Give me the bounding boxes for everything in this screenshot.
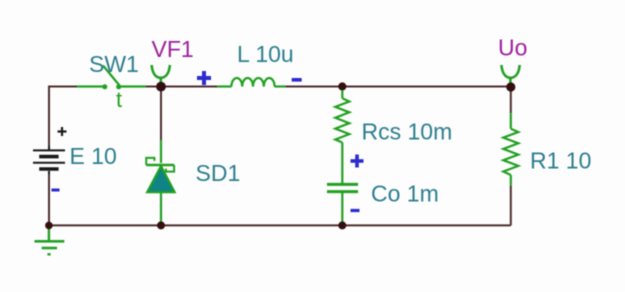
node Uo junction: [506, 82, 515, 91]
wire diode branch upper: [160, 87, 162, 141]
svg-text:Rcs 10m: Rcs 10m: [362, 118, 453, 144]
battery plus polarity mark: [58, 127, 67, 136]
diode SD1 schottky: [146, 140, 174, 222]
node ground junction: [45, 222, 53, 230]
svg-text:E 10: E 10: [70, 143, 117, 169]
wire bottom rail: [49, 224, 511, 226]
node Rcs top junction: [338, 82, 346, 90]
resistor Rcs 10m: [335, 90, 349, 184]
node VF1 junction: [156, 82, 166, 92]
probe VF1: [152, 65, 170, 84]
wire switch to VF1 node: [146, 86, 161, 88]
wire R1 branch lower: [510, 185, 512, 225]
svg-text:R1 10: R1 10: [530, 147, 591, 173]
wire inductor to Uo corner: [285, 87, 510, 114]
svg-text:Uo: Uo: [498, 34, 527, 60]
probe Uo: [501, 65, 519, 84]
node Co bottom junction: [338, 221, 346, 229]
ground: [35, 229, 65, 255]
inductor L 10u: [217, 78, 285, 87]
svg-text:SW1: SW1: [89, 51, 139, 77]
inductor minus polarity mark: [292, 78, 302, 82]
inductor plus polarity mark: [197, 71, 211, 85]
battery E 10: [33, 146, 65, 174]
svg-text:VF1: VF1: [152, 36, 194, 62]
battery minus polarity mark: [52, 189, 60, 192]
svg-text:Co 1m: Co 1m: [371, 180, 439, 206]
capacitor minus polarity mark: [351, 209, 360, 212]
wire battery to ground junction: [48, 172, 50, 225]
svg-text:SD1: SD1: [196, 160, 241, 186]
node diode bottom junction: [157, 221, 165, 229]
capacitor plus polarity mark: [351, 155, 364, 168]
svg-text:L 10u: L 10u: [237, 41, 294, 67]
resistor R1 10: [503, 113, 518, 185]
switch SW1: [77, 66, 146, 90]
capacitor Co 1m: [327, 184, 358, 222]
wire top-left corner (left rail to switch): [49, 87, 77, 148]
wire VF1 node to inductor: [161, 86, 217, 88]
svg-text:t: t: [116, 87, 122, 112]
